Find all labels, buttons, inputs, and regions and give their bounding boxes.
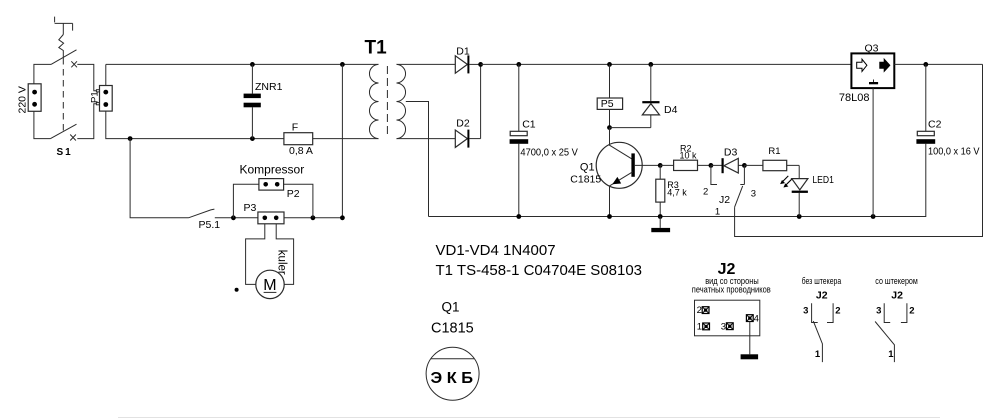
svg-text:Q1: Q1 — [580, 161, 595, 173]
wire pad4 to ground bar — [749, 322, 751, 355]
node bottom rail / P5.1 branch — [128, 136, 133, 141]
transformer T1 secondary winding — [397, 64, 406, 138]
svg-text:D3: D3 — [724, 147, 738, 159]
svg-text:2: 2 — [703, 187, 708, 198]
svg-text:0,8 A: 0,8 A — [289, 145, 313, 157]
transistor Q1 base wire — [635, 164, 660, 166]
node P2 right branch — [311, 215, 316, 220]
cord zigzag — [59, 35, 64, 59]
svg-text:LED1: LED1 — [812, 174, 834, 186]
svg-text:100,0 x 16 V: 100,0 x 16 V — [928, 146, 980, 158]
svg-text:Q1: Q1 — [442, 300, 460, 315]
svg-text:P2: P2 — [287, 188, 300, 200]
middle diagram pin 2 — [827, 303, 833, 322]
wire P5.1 branch from bottom rail — [130, 139, 188, 218]
wire top rail P1 to transformer primary — [106, 64, 379, 85]
faint bottom scan line — [118, 417, 940, 419]
svg-text:C1815: C1815 — [570, 174, 601, 186]
resistor R1 — [744, 164, 799, 166]
LED1 light arrows — [782, 176, 791, 186]
wire bottom rail P1 to fuse — [106, 111, 284, 139]
svg-text:Э К Б: Э К Б — [431, 370, 474, 387]
transistor pinout circle — [426, 347, 479, 400]
svg-text:S1: S1 — [57, 147, 73, 158]
svg-text:печатных проводников: печатных проводников — [692, 284, 771, 294]
svg-text:Q3: Q3 — [865, 42, 879, 54]
svg-text:J2: J2 — [719, 194, 730, 206]
wire P3 right pin to motor — [276, 224, 293, 285]
svg-text:Kompressor: Kompressor — [240, 162, 305, 176]
node ground C1 — [516, 214, 521, 219]
node output C2 — [923, 62, 928, 67]
svg-text:C1: C1 — [522, 118, 536, 130]
node P2 left branch — [231, 215, 236, 220]
svg-text:3: 3 — [751, 189, 756, 200]
svg-text:1: 1 — [697, 322, 702, 333]
ground rail from center tap to C2 — [429, 144, 926, 217]
resistor R2 — [660, 164, 711, 166]
switch S1 bottom X mark — [70, 135, 76, 141]
wire secondary bottom to D2 — [397, 138, 456, 140]
LED LED1 — [798, 165, 800, 178]
node bottom rail / ZNR1 — [250, 136, 255, 141]
svg-text:78L08: 78L08 — [839, 92, 870, 104]
svg-text:2: 2 — [909, 306, 914, 317]
node D1 D2 cathodes — [478, 62, 483, 67]
node kompressor branch corner — [340, 215, 345, 220]
svg-text:P5: P5 — [601, 98, 614, 110]
svg-text:2: 2 — [835, 306, 840, 317]
J2 pin 3 stub — [740, 165, 744, 184]
svg-text:P5.1: P5.1 — [199, 219, 221, 231]
transformer T1 core dashed — [386, 66, 388, 138]
node ground Q3 — [871, 214, 876, 219]
svg-text:T1 TS-458-1 C04704E S08103: T1 TS-458-1 C04704E S08103 — [436, 262, 643, 279]
svg-text:M: M — [263, 277, 276, 294]
svg-text:1: 1 — [715, 207, 720, 218]
motor kuler M — [256, 270, 284, 298]
wire S1 top contact to P1 left top tab — [77, 64, 96, 90]
resistor R3 — [659, 165, 661, 216]
wire secondary top to D1 — [397, 63, 456, 65]
svg-text:4,7 k: 4,7 k — [667, 187, 687, 197]
svg-text:4: 4 — [754, 313, 759, 324]
pad 1 — [703, 323, 710, 330]
wire Q3 ground to rail — [872, 88, 874, 216]
node top rail / kompressor branch — [340, 62, 345, 67]
pad 2 — [702, 307, 709, 314]
svg-text:T1: T1 — [365, 37, 388, 58]
svg-text:10 k: 10 k — [680, 151, 698, 161]
wire Q3 output to right edge — [894, 63, 982, 65]
svg-text:P1: P1 — [89, 91, 100, 103]
switch S1 top blade — [51, 50, 77, 65]
wire D4 bottom to P5 bottom — [610, 127, 651, 129]
connector P1 left tabs — [96, 90, 99, 92]
svg-text:1: 1 — [888, 349, 894, 360]
transistor Q1 collector — [610, 128, 633, 160]
transformer T1 primary winding — [369, 64, 378, 138]
svg-text:C2: C2 — [928, 118, 942, 130]
middle diagram blade and pin 1 — [813, 321, 822, 362]
svg-text:2: 2 — [697, 305, 702, 316]
wire P2 left — [233, 184, 259, 218]
svg-text:J2: J2 — [891, 290, 903, 302]
right diagram pin 2 — [901, 303, 907, 322]
svg-text:220 V: 220 V — [17, 86, 29, 113]
wire S1 bottom contact to P1 left bottom tab — [77, 104, 96, 139]
wire top rail D1 to Q3 — [481, 63, 852, 65]
node R2 D3 J2 pin2 — [709, 163, 714, 168]
middle diagram pin 3 — [812, 303, 818, 322]
Q3 inner ground mark — [873, 80, 875, 83]
pad 4 — [746, 315, 753, 322]
switch P5.1 blade — [189, 209, 215, 218]
svg-text:3: 3 — [803, 305, 808, 316]
connector P2 box — [259, 179, 284, 191]
mains plug symbol — [55, 17, 73, 35]
node top rail / ZNR1 — [250, 62, 255, 67]
node ground LED1 — [797, 214, 802, 219]
right diagram pin 3 — [884, 303, 890, 322]
wire bottom rail fuse to transformer primary — [313, 138, 379, 140]
J2 pin 2 stub — [711, 165, 717, 184]
pcb ground bar — [741, 354, 759, 359]
varistor ZNR1 — [251, 64, 253, 138]
transistor Q1 circle — [596, 142, 642, 188]
connector 220V plug box — [28, 84, 41, 112]
node top rail / P5 — [607, 62, 612, 67]
wire J2 pin1 return to output rail — [735, 64, 983, 236]
svg-text:C1815: C1815 — [431, 320, 474, 336]
pad 3 — [726, 323, 733, 330]
svg-text:D2: D2 — [456, 117, 470, 129]
stray dot near motor — [235, 288, 239, 292]
svg-text:F: F — [292, 122, 298, 134]
right diagram blade and pin 1 — [875, 322, 894, 363]
switch S1 mechanical link dashed — [62, 58, 64, 132]
ground symbol under R3 — [659, 217, 661, 228]
svg-text:P3: P3 — [244, 202, 257, 214]
diode D1 — [455, 56, 467, 73]
fuse F 0.8A — [284, 133, 313, 145]
svg-text:4700,0 x 25 V: 4700,0 x 25 V — [520, 146, 578, 158]
wire kompressor branch from top rail — [341, 64, 343, 217]
svg-text:kuler: kuler — [275, 250, 287, 275]
node ground Q1 emitter — [607, 214, 612, 219]
svg-text:VD1-VD4 1N4007: VD1-VD4 1N4007 — [436, 242, 556, 259]
diode D2 — [455, 130, 467, 147]
pinout circle chord — [431, 358, 475, 360]
diode D4 — [650, 64, 652, 127]
svg-text:3: 3 — [721, 321, 726, 332]
wire D2 cathode up to top rail — [480, 64, 482, 138]
connector P3 box — [258, 212, 284, 224]
node top rail / C1 — [516, 62, 521, 67]
wire P3 left pin to motor — [246, 224, 265, 285]
capacitor C1 — [518, 64, 520, 216]
connector P1 box — [100, 86, 113, 112]
svg-text:ZNR1: ZNR1 — [255, 81, 283, 93]
node ground R3 — [658, 214, 663, 219]
svg-text:со штекером: со штекером — [875, 276, 918, 286]
node D3 R1 J2 pin3 — [742, 163, 747, 168]
wire P5.1 to P3 to kompressor branch — [215, 217, 343, 219]
transistor Q1 emitter with arrow — [610, 172, 633, 186]
wire P2 right — [284, 184, 313, 218]
node top rail / D4 — [648, 62, 653, 67]
svg-text:R1: R1 — [768, 146, 780, 157]
svg-text:без штекера: без штекера — [802, 276, 842, 286]
diode D3 — [711, 164, 745, 166]
svg-text:D1: D1 — [456, 45, 470, 57]
wire 220V box top to S1 top contact — [34, 64, 51, 84]
svg-text:1: 1 — [815, 349, 821, 360]
transistor Q1 base bar — [631, 153, 634, 176]
svg-text:D4: D4 — [664, 104, 678, 116]
J2 pcb view box — [695, 300, 760, 336]
Q3 solid arrow — [880, 59, 890, 71]
capacitor C2 — [925, 64, 927, 131]
wire secondary center tap to ground rail — [406, 102, 429, 217]
svg-text:3: 3 — [876, 305, 881, 316]
regulator Q3 box — [851, 53, 894, 88]
node P5 D4 junction — [607, 125, 612, 130]
wire 220V box bottom to S1 bottom contact — [34, 111, 51, 139]
J2 blade — [735, 186, 743, 207]
Q3 hollow arrow — [857, 59, 867, 71]
switch S1 bottom blade — [51, 124, 77, 138]
connector P5 — [609, 64, 611, 127]
svg-text:J2: J2 — [816, 290, 828, 302]
node base R2 R3 — [658, 163, 663, 168]
switch S1 top X mark — [71, 61, 77, 67]
